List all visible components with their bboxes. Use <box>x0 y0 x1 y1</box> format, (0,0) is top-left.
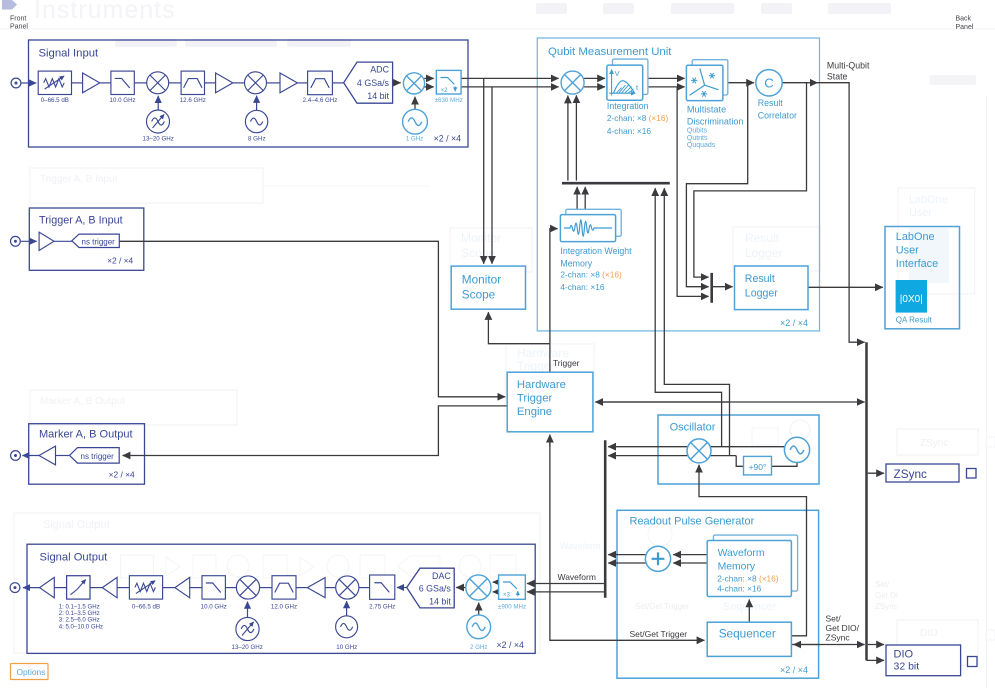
svg-text:1 GHz: 1 GHz <box>406 135 424 142</box>
wire sequencer set-get dio <box>791 644 864 646</box>
output amplifier A8 <box>307 578 325 598</box>
amplifier A1 <box>83 73 100 93</box>
wire trigger input route <box>119 241 505 396</box>
ghost marker output box <box>30 390 237 425</box>
wire right bus vertical <box>865 342 868 660</box>
svg-text:Waveform: Waveform <box>718 548 765 559</box>
svg-text:Waveform: Waveform <box>558 572 596 582</box>
svg-text:Result: Result <box>745 273 775 285</box>
wire integration to discrimination <box>643 78 685 87</box>
wire trigger vertical to iwm <box>550 229 558 373</box>
svg-text:Sequencer: Sequencer <box>719 626 776 640</box>
svg-text:ADC: ADC <box>370 65 389 75</box>
svg-text:2-chan: ×8 (×16): 2-chan: ×8 (×16) <box>560 270 622 280</box>
wire input pair to QMU mixer upper <box>461 77 558 79</box>
wire mixer1 to bpf <box>169 82 181 84</box>
wire iwm to bar a <box>576 187 578 212</box>
svg-text:QA Result: QA Result <box>896 315 933 324</box>
svg-text:|0X0|: |0X0| <box>900 294 923 305</box>
svg-text:8 GHz: 8 GHz <box>248 135 266 142</box>
svg-text:Set/Get Trigger: Set/Get Trigger <box>630 629 688 639</box>
svg-text:Get DI: Get DI <box>875 591 898 600</box>
bandpass filter 2.4-4.6GHz <box>303 71 338 104</box>
multistate small labels <box>687 128 716 149</box>
ghost trigger input box <box>30 168 263 203</box>
svg-text:Panel: Panel <box>956 24 974 31</box>
svg-text:×2 / ×4: ×2 / ×4 <box>780 318 808 328</box>
marker amplifier <box>39 446 56 465</box>
svg-text:×2 / ×4: ×2 / ×4 <box>496 640 523 650</box>
svg-text:Instruments: Instruments <box>34 0 176 24</box>
wire plus90 input <box>772 463 797 467</box>
digital mixer output <box>466 575 491 600</box>
label set-get trigger <box>630 629 688 639</box>
wire drop to monitor scope right <box>491 87 493 264</box>
wire amp2 to mixer2 <box>233 82 245 84</box>
svg-text:Memory: Memory <box>718 562 756 573</box>
box Marker A B Output <box>29 424 145 485</box>
monitor scope box <box>451 266 525 309</box>
svg-text:0–66.5 dB: 0–66.5 dB <box>41 97 69 104</box>
wire out lpf2 to mixer2 <box>359 587 370 589</box>
svg-text:Trigger: Trigger <box>553 358 580 368</box>
wire marker output route <box>123 406 508 456</box>
wire correlator output <box>782 82 817 84</box>
svg-text:13–20 GHz: 13–20 GHz <box>143 135 174 142</box>
dio box <box>886 645 961 676</box>
output amplifier A5 <box>40 577 55 597</box>
svg-text:Ququads: Ququads <box>687 142 716 149</box>
svg-text:Signal Output: Signal Output <box>40 552 109 564</box>
ghost trigger wire <box>263 185 430 187</box>
svg-text:32 bit: 32 bit <box>894 661 920 673</box>
wire lo1 to mixer1 <box>157 96 159 110</box>
ns trigger tag input <box>72 234 120 247</box>
wire set-get trigger to hte <box>549 435 551 447</box>
ghost set-get-dio text <box>875 580 898 611</box>
svg-text:Result: Result <box>745 231 780 245</box>
plus90 phase shifter <box>744 456 772 475</box>
box Trigger A B Input <box>29 208 144 270</box>
wire bar to QMU mixer b <box>575 95 577 180</box>
svg-text:×2: ×2 <box>441 88 449 94</box>
box Signal Output <box>27 544 535 653</box>
svg-text:4 GSa/s: 4 GSa/s <box>357 78 390 88</box>
wire mux bar <box>710 273 713 303</box>
ghost hardware trigger engine box <box>506 344 594 404</box>
svg-text:Hardware: Hardware <box>517 379 566 391</box>
wire out bpf to mixer1 <box>260 587 272 589</box>
oscillator mixer <box>687 439 711 463</box>
label output x2 x4 <box>496 640 523 650</box>
trigger connector J2 <box>11 236 21 246</box>
ghost set-get-trigger label <box>635 602 690 611</box>
svg-text:ns trigger: ns trigger <box>81 452 115 461</box>
adder circle <box>645 546 670 571</box>
svg-text:User: User <box>896 244 919 256</box>
label multi-qubit state <box>827 61 870 82</box>
result correlator <box>756 70 797 121</box>
svg-text:Logger: Logger <box>745 246 782 260</box>
output mixer M4 <box>336 576 359 599</box>
wire 2GHz osc to digital mixer <box>478 603 480 615</box>
wire mixer2 to amp3 <box>267 82 281 84</box>
svg-text:Set/: Set/ <box>875 580 890 589</box>
output attenuator 0-66.5dB <box>129 576 162 611</box>
svg-text:10.0 GHz: 10.0 GHz <box>201 603 227 610</box>
svg-text:2-chan: ×8 (×16): 2-chan: ×8 (×16) <box>607 113 669 123</box>
zsync connector <box>967 469 977 479</box>
wire iwm to bar b <box>584 187 586 212</box>
wire waveform memory to adder <box>673 555 707 563</box>
svg-text:Integration Weight: Integration Weight <box>560 246 632 256</box>
wire adc to digital mixer <box>393 82 401 84</box>
svg-text:DIO: DIO <box>894 649 914 661</box>
svg-text:Readout Pulse Generator: Readout Pulse Generator <box>630 516 755 528</box>
wire marker tag to amp <box>56 455 70 457</box>
local oscillator 8GHz <box>245 110 267 142</box>
svg-text:Multi-Qubit: Multi-Qubit <box>827 61 870 71</box>
integration channel labels <box>607 113 669 136</box>
wire QMU weight bus bar <box>562 182 670 185</box>
svg-text:Trigger A, B Input: Trigger A, B Input <box>40 174 118 185</box>
trigger amplifier <box>39 232 54 250</box>
wire oscillator pair to QMU b <box>664 188 729 455</box>
svg-text:Waveform: Waveform <box>560 541 601 551</box>
svg-text:13–20 GHz: 13–20 GHz <box>232 644 263 651</box>
wire attenuator to amp1 <box>72 82 83 84</box>
output lowpass 2.75GHz <box>369 575 395 610</box>
DAC block <box>407 568 455 608</box>
multistate discrimination unit <box>686 60 743 127</box>
ghost page header rule <box>0 28 995 31</box>
svg-text:User: User <box>909 207 932 219</box>
svg-text:Qubits: Qubits <box>687 128 708 135</box>
wire out att to amp2 <box>117 587 129 589</box>
variable gain amplifier <box>59 576 103 631</box>
result logger box <box>735 266 809 310</box>
wire 1GHz osc to digital mixer <box>414 97 416 109</box>
iwm labels <box>560 246 632 292</box>
wire input pair to QMU mixer lower <box>461 86 558 88</box>
box Oscillator <box>658 415 819 484</box>
wire bus to hte arrow <box>595 401 730 403</box>
svg-text:Qubit Measurement Unit: Qubit Measurement Unit <box>548 46 672 58</box>
svg-text:Memory: Memory <box>560 258 592 268</box>
wire amp3 to bpf2 <box>297 82 307 84</box>
svg-text:DAC: DAC <box>432 571 451 581</box>
input connector J1 <box>11 78 21 88</box>
wire lo2 to mixer2 <box>256 96 258 111</box>
output bandpass 12.0GHz <box>271 576 297 611</box>
svg-text:2.4–4.6 GHz: 2.4–4.6 GHz <box>303 97 338 104</box>
wire out lpf to amp3 <box>190 587 202 589</box>
svg-text:Logger: Logger <box>745 288 778 300</box>
dio connector <box>968 657 978 667</box>
svg-text:12.6 GHz: 12.6 GHz <box>180 97 206 104</box>
output connector J4 <box>10 583 20 593</box>
svg-text:LabOne: LabOne <box>896 231 935 243</box>
wire out amp3 to att <box>163 587 175 589</box>
wire multi-qubit state route <box>817 83 865 343</box>
wire bpf2 to adc <box>332 82 343 84</box>
wire out amp to connector <box>23 587 40 589</box>
ghost page nav items <box>536 3 891 14</box>
ghost request-demo text <box>930 75 976 85</box>
wire marker amp to connector <box>22 455 39 457</box>
local oscillator 13-20GHz <box>143 110 174 142</box>
wire amp1 to lpf <box>100 82 111 84</box>
oscillator 1GHz digital <box>403 109 428 142</box>
svg-text:4-chan: ×16: 4-chan: ×16 <box>607 126 651 136</box>
label QMU x2 x4 <box>780 318 808 328</box>
svg-text:Options: Options <box>17 667 46 677</box>
marker connector J3 <box>11 451 21 461</box>
output lo 13-20GHz <box>232 617 263 650</box>
svg-text:Marker A, B Output: Marker A, B Output <box>39 429 133 441</box>
wire oscillator out lower <box>608 455 736 457</box>
svg-text:4-chan: ×16: 4-chan: ×16 <box>717 584 761 594</box>
mixer M2 <box>245 72 267 94</box>
ghost page header logo mark <box>2 0 17 10</box>
svg-text:±900 MHz: ±900 MHz <box>498 603 526 610</box>
svg-text:10.0 GHz: 10.0 GHz <box>110 97 136 104</box>
label input x2 x4 <box>434 133 461 143</box>
svg-text:Oscillator: Oscillator <box>670 422 716 434</box>
svg-text:State: State <box>827 71 848 81</box>
box Signal Input <box>29 40 469 147</box>
ghost adder <box>648 522 672 546</box>
svg-text:0–66.5 dB: 0–66.5 dB <box>132 603 160 610</box>
svg-text:12.0 GHz: 12.0 GHz <box>271 603 297 610</box>
svg-text:LabOne: LabOne <box>909 194 948 206</box>
output lowpass 10.0GHz <box>201 576 227 611</box>
svg-text:+90°: +90° <box>749 462 767 472</box>
attenuator 0-66.5dB <box>38 71 71 104</box>
options button <box>11 664 49 680</box>
wire adder to waveform bar <box>608 555 645 563</box>
interpolation filter 900MHz <box>498 575 526 610</box>
svg-text:2.75 GHz: 2.75 GHz <box>369 603 395 610</box>
svg-text:×3: ×3 <box>503 593 511 599</box>
svg-text:Qutrits: Qutrits <box>687 135 708 142</box>
integration weight memory <box>560 209 621 241</box>
wire set-get trigger to sequencer <box>550 437 705 641</box>
wire tap discrimination to mux <box>686 83 747 287</box>
svg-text:C: C <box>764 76 773 91</box>
wire trig connector to amp <box>21 240 37 242</box>
wire bus to dio lower <box>867 659 885 661</box>
mixer M1 <box>147 72 169 94</box>
svg-text:Signal Output: Signal Output <box>43 519 110 531</box>
wire dac to lpf2 <box>397 587 407 589</box>
wire oscillator pair to QMU a <box>655 188 721 447</box>
wire out lo1 to mixer1 <box>247 602 249 618</box>
wire out vga to amp <box>54 587 66 589</box>
svg-text:Monitor: Monitor <box>462 273 501 287</box>
svg-text:10 GHz: 10 GHz <box>336 644 357 651</box>
label RPG x2 x4 <box>780 665 808 675</box>
lowpass filter 10.0GHz <box>110 71 136 104</box>
decimation filter 630MHz <box>435 70 463 103</box>
wire digital mixer to dac <box>456 587 466 589</box>
wire out lo2 to mixer2 <box>346 601 348 616</box>
svg-text:Correlator: Correlator <box>758 111 797 121</box>
svg-text:2-chan: ×8 (×16): 2-chan: ×8 (×16) <box>717 573 779 583</box>
svg-text:Engine: Engine <box>517 406 552 418</box>
svg-text:ns trigger: ns trigger <box>82 238 116 247</box>
svg-text:×2 / ×4: ×2 / ×4 <box>107 255 133 265</box>
svg-text:×2 / ×4: ×2 / ×4 <box>109 469 135 479</box>
svg-text:ZSync: ZSync <box>826 633 851 643</box>
waveform memory box <box>707 535 797 596</box>
oscillator 2GHz digital <box>467 615 491 651</box>
svg-text:×2 / ×4: ×2 / ×4 <box>434 133 461 143</box>
wire result logger to labone <box>808 286 883 288</box>
wire drop to monitor scope left <box>483 78 485 263</box>
svg-text:Trigger A, B Input: Trigger A, B Input <box>39 215 123 227</box>
svg-text:Signal Input: Signal Input <box>39 48 100 60</box>
svg-text:4: 5.0–10.0 GHz: 4: 5.0–10.0 GHz <box>59 623 103 630</box>
svg-text:ZSync: ZSync <box>920 438 948 449</box>
wire oscillator out upper <box>608 446 785 448</box>
wire discrimination to correlator <box>723 82 754 84</box>
svg-text:2 GHz: 2 GHz <box>470 644 488 651</box>
wire digital mixer to decimation pair <box>424 78 434 87</box>
wire bus to dio upper <box>868 644 884 646</box>
label Back Panel <box>956 16 974 32</box>
svg-text:Front: Front <box>10 16 26 23</box>
svg-text:Interface: Interface <box>896 258 938 270</box>
ns trigger tag output <box>70 448 120 464</box>
zsync box <box>886 464 959 482</box>
wire bus to zsync <box>868 472 884 474</box>
ghost dio box <box>897 620 995 665</box>
wire trigger to monitor scope <box>488 312 550 344</box>
wire out amp4 to bpf <box>296 587 307 589</box>
ghost labone box <box>898 188 975 294</box>
svg-text:Monitor: Monitor <box>461 231 501 245</box>
output amplifier A7 <box>175 577 190 597</box>
output lo 10GHz <box>336 616 358 651</box>
label trigger x2 x4 <box>107 255 133 265</box>
label Front Panel <box>10 16 28 31</box>
wire sequencer to oscillator mixer <box>699 465 807 636</box>
label marker x2 x4 <box>109 469 135 479</box>
svg-text:V: V <box>615 69 620 78</box>
wire sequencer to waveform memory <box>748 600 750 623</box>
box Readout Pulse Generator <box>617 510 819 678</box>
svg-text:±630 MHz: ±630 MHz <box>435 97 463 104</box>
output mixer M3 <box>236 576 259 599</box>
bandpass filter 12.6GHz <box>180 71 206 104</box>
wire hte to bus <box>600 401 865 403</box>
wire out mixer1 to lpf <box>225 587 236 589</box>
wire waveform bar <box>604 440 607 597</box>
ghost signal output box <box>14 513 540 653</box>
svg-text:Integration: Integration <box>607 101 649 111</box>
wire input connector to attenuator <box>21 82 36 84</box>
ghost page header wordmark <box>34 0 176 24</box>
ghost oscillator parts <box>752 420 810 445</box>
ghost hero text row <box>115 39 351 47</box>
svg-text:Trigger: Trigger <box>517 359 555 373</box>
label set-get dio zsync <box>826 614 860 643</box>
wire tap correlator to mux <box>694 83 807 277</box>
ghost zsync box <box>897 429 995 455</box>
svg-text:Set/Get Trigger: Set/Get Trigger <box>635 602 690 611</box>
wire QMU mixer to integration <box>584 78 605 87</box>
digital mixer input <box>403 73 424 94</box>
wire out interp to digital mixer <box>493 582 499 592</box>
wire plus90 output <box>736 456 743 467</box>
wire mux to result logger <box>713 286 733 288</box>
svg-text:ZSync: ZSync <box>894 467 928 481</box>
box Qubit Measurement Unit <box>537 38 819 331</box>
svg-text:14 bit: 14 bit <box>367 91 389 101</box>
wire trig amp to tag <box>54 240 72 242</box>
amplifier A2 <box>216 73 233 93</box>
label trigger <box>553 358 580 368</box>
oscillator sine source <box>784 437 809 462</box>
wire out mixer2 to amp4 <box>325 587 336 589</box>
wire out amp2 to vga <box>90 587 102 589</box>
integration unit <box>607 59 649 111</box>
ghost monitor scope box <box>450 228 532 272</box>
labone user interface box <box>885 227 960 329</box>
svg-text:Discrimination: Discrimination <box>687 116 744 126</box>
ghost output chain row <box>121 555 517 578</box>
QMU mixer multiplier <box>561 71 584 94</box>
svg-text:ZSync: ZSync <box>875 602 898 611</box>
ADC block <box>344 62 393 103</box>
svg-text:DIO: DIO <box>920 628 938 639</box>
wire waveform bar to interpolator <box>527 584 604 592</box>
svg-text:Scope: Scope <box>461 246 495 260</box>
ghost page right rule <box>986 95 987 688</box>
hardware trigger engine box <box>507 372 593 432</box>
svg-text:6 GSa/s: 6 GSa/s <box>419 584 452 594</box>
amplifier A3 <box>280 73 297 93</box>
wire bpf to amp2 <box>205 82 216 84</box>
sequencer box <box>707 622 791 656</box>
svg-text:Back: Back <box>956 16 972 23</box>
svg-text:Panel: Panel <box>10 24 28 31</box>
wire lpf to mixer1 <box>134 82 146 84</box>
ghost result logger box <box>733 227 820 271</box>
label waveform <box>558 572 596 582</box>
svg-text:×2 / ×4: ×2 / ×4 <box>780 665 808 675</box>
svg-text:14 bit: 14 bit <box>429 596 451 606</box>
output amplifier A6 <box>102 577 117 597</box>
svg-text:Marker A, B Output: Marker A, B Output <box>40 396 125 407</box>
ghost sequencer label <box>723 601 777 613</box>
ghost waveform label <box>560 541 601 551</box>
svg-text:Scope: Scope <box>462 288 496 302</box>
svg-text:4-chan: ×16: 4-chan: ×16 <box>560 282 604 292</box>
svg-text:Multistate: Multistate <box>687 105 726 115</box>
svg-text:Result: Result <box>758 98 783 108</box>
wire bar to QMU mixer a <box>567 96 569 181</box>
wire tap integration to mux <box>677 87 709 297</box>
svg-text:Trigger: Trigger <box>517 393 553 405</box>
